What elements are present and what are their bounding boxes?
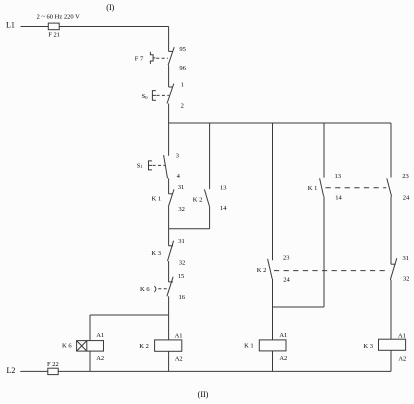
wire K6 contact to K6 coil tee — [168, 296, 170, 315]
svg-text:32: 32 — [178, 206, 185, 213]
wire dashed link S0 — [157, 94, 169, 96]
contact S0 NC (1-2) — [167, 84, 174, 104]
svg-text:A1: A1 — [398, 333, 406, 340]
contact K3 NC (31-32) — [168, 241, 174, 261]
svg-text:L2: L2 — [6, 366, 15, 375]
svg-text:S1: S1 — [137, 162, 143, 169]
svg-text:96: 96 — [179, 65, 186, 72]
wire junction to K3 contact — [168, 229, 170, 246]
svg-text:32: 32 — [179, 260, 186, 267]
wire main vertical top (L1 corner to F7) — [168, 27, 170, 52]
fuse F21 — [48, 23, 59, 30]
timer K6 delay symbol — [154, 286, 156, 292]
svg-text:14: 14 — [335, 194, 342, 201]
coil K6 timer box — [77, 341, 104, 352]
wire K2 coil to L2 — [168, 351, 170, 371]
svg-text:(II): (II) — [198, 390, 209, 399]
svg-text:K 2: K 2 — [257, 267, 267, 274]
svg-text:A2: A2 — [279, 355, 287, 362]
wire K2 branch from bus — [209, 123, 211, 189]
svg-text:A2: A2 — [96, 355, 104, 362]
svg-text:K 3: K 3 — [151, 250, 161, 257]
wire K3 coil to L2 — [390, 350, 392, 371]
contact K2 NO (23-24) — [268, 259, 273, 279]
wire tee horizontal to K6 coil branch — [90, 314, 169, 316]
wire K1-coil branch from bus — [272, 123, 274, 260]
svg-text:L1: L1 — [6, 21, 15, 30]
contact K2 NC (31-32) — [390, 258, 397, 280]
contact S1 NO (3-4) — [164, 155, 168, 178]
svg-text:32: 32 — [403, 275, 410, 282]
wire dashed link F7 — [156, 57, 168, 59]
wire L2 horizontal — [20, 370, 391, 372]
contact K1 NC (31-32) — [168, 189, 174, 206]
coil K2 — [155, 340, 182, 351]
wire K2 contact to K1 coil — [272, 279, 274, 340]
contact K6 NC delayed (15-16) — [167, 277, 173, 297]
wire K1 coil to L2 — [272, 351, 274, 372]
svg-text:K 3: K 3 — [363, 343, 373, 350]
svg-text:K 1: K 1 — [152, 196, 162, 203]
svg-text:2 ~ 60 Hz 220 V: 2 ~ 60 Hz 220 V — [37, 13, 81, 20]
svg-text:A1: A1 — [175, 332, 183, 339]
wire dashed link S1 — [153, 164, 165, 166]
svg-text:A2: A2 — [398, 356, 406, 363]
svg-text:A2: A2 — [175, 356, 183, 363]
wire K1 contact branch from bus — [323, 123, 325, 178]
svg-text:F 7: F 7 — [135, 56, 144, 63]
wire dashed link K6 — [158, 288, 167, 290]
svg-text:K 6: K 6 — [140, 286, 150, 293]
wire K2 branch lower — [209, 207, 211, 229]
contact K1 NO (13-14) — [320, 178, 324, 196]
wire S1 to K1 contact — [168, 178, 170, 194]
svg-text:(I): (I) — [106, 3, 114, 12]
contact F7 NC (95-96) — [168, 47, 174, 65]
contact K1 NO (23-24) — [387, 178, 392, 196]
svg-text:23: 23 — [402, 173, 409, 180]
svg-text:S0: S0 — [142, 93, 149, 100]
wire K6 coil to L2 — [89, 351, 91, 371]
fuse F22 — [48, 368, 58, 374]
wire right column middle — [390, 197, 392, 265]
wire K1 contact to junction — [168, 207, 170, 229]
svg-text:A1: A1 — [279, 332, 287, 339]
svg-text:31: 31 — [402, 255, 409, 262]
wire K1 contact branch lower — [323, 196, 325, 307]
svg-text:F 21: F 21 — [48, 32, 60, 39]
wire S0 to bus — [168, 104, 170, 124]
wire K3 contact to K6 contact — [168, 261, 170, 282]
pushbutton S0 actuator — [152, 91, 156, 101]
svg-text:31: 31 — [178, 238, 185, 245]
svg-text:24: 24 — [283, 276, 290, 283]
svg-text:31: 31 — [178, 184, 185, 191]
wire L1 horizontal — [21, 26, 169, 28]
wire dashed mechanical link K2 — [274, 270, 389, 272]
svg-text:K 2: K 2 — [139, 343, 149, 350]
svg-text:16: 16 — [178, 294, 185, 301]
wire bus to S1 — [168, 123, 170, 156]
coil K3 — [379, 339, 406, 350]
svg-text:K 2: K 2 — [193, 196, 203, 203]
wire junction horizontal K2 branch bottom — [169, 228, 210, 230]
svg-text:13: 13 — [220, 184, 227, 191]
svg-text:A1: A1 — [96, 332, 104, 339]
coil K1 — [259, 340, 286, 351]
svg-text:95: 95 — [179, 46, 186, 53]
svg-text:13: 13 — [335, 173, 342, 180]
svg-text:3: 3 — [176, 152, 179, 159]
breaker F7 thermal actuator symbol — [150, 52, 155, 64]
svg-text:15: 15 — [178, 273, 185, 280]
svg-text:2: 2 — [181, 102, 184, 109]
wire dashed mechanical link K1 — [326, 187, 387, 189]
wire junction horizontal K1 branch — [273, 306, 325, 308]
wire between F7 and S0 — [168, 65, 170, 87]
svg-text:24: 24 — [403, 195, 410, 202]
wire bus horizontal — [169, 122, 391, 124]
svg-text:1: 1 — [181, 82, 184, 89]
wire K6 coil branch vertical — [89, 315, 91, 341]
svg-text:F 22: F 22 — [47, 361, 59, 368]
contact K2 NO (13-14) — [204, 189, 209, 207]
wire main to K2 coil — [168, 315, 170, 340]
pushbutton S1 actuator — [149, 161, 153, 170]
wire right column from bus — [390, 123, 392, 178]
svg-text:K 1: K 1 — [244, 343, 254, 350]
wire right column to K3 coil — [390, 280, 392, 339]
svg-text:K 6: K 6 — [62, 343, 72, 350]
svg-text:14: 14 — [220, 205, 227, 212]
svg-text:4: 4 — [177, 173, 181, 180]
svg-text:23: 23 — [283, 255, 290, 262]
svg-text:K 1: K 1 — [308, 185, 318, 192]
